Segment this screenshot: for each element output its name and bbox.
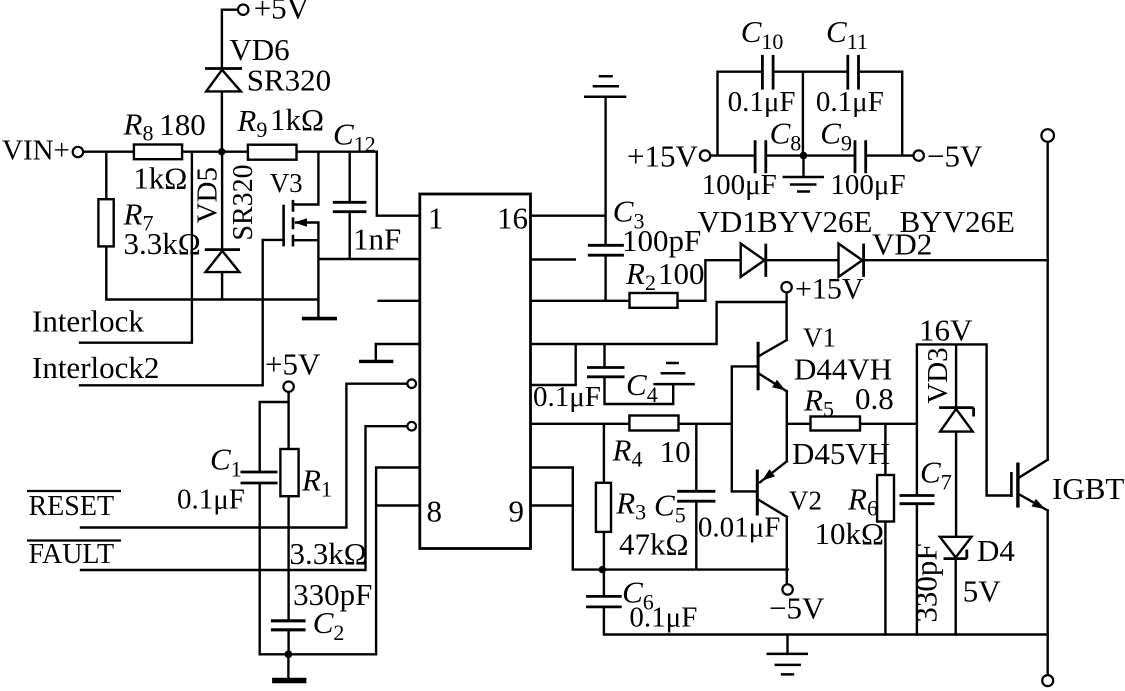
svg-text:Interlock: Interlock: [32, 304, 144, 339]
svg-text:C5: C5: [654, 488, 686, 528]
svg-text:R2: R2: [625, 256, 656, 295]
svg-text:C7: C7: [920, 455, 952, 495]
svg-text:D45VH: D45VH: [792, 436, 890, 471]
svg-text:1: 1: [428, 201, 444, 236]
svg-text:VIN+: VIN+: [2, 135, 70, 167]
svg-text:1kΩ: 1kΩ: [133, 161, 187, 196]
svg-text:+15V: +15V: [627, 139, 698, 174]
svg-text:C11: C11: [826, 14, 868, 54]
svg-text:180: 180: [159, 107, 206, 142]
svg-text:C10: C10: [741, 14, 784, 54]
svg-text:SR320: SR320: [228, 164, 259, 240]
svg-text:0.8: 0.8: [855, 381, 894, 416]
svg-text:Interlock2: Interlock2: [32, 350, 159, 385]
svg-text:R4: R4: [612, 433, 643, 472]
svg-text:8: 8: [427, 494, 443, 529]
svg-text:0.01μF: 0.01μF: [698, 512, 780, 544]
svg-text:100μF: 100μF: [702, 169, 777, 201]
svg-text:R6: R6: [847, 482, 878, 521]
svg-text:100: 100: [658, 256, 705, 291]
svg-text:C1: C1: [210, 442, 242, 482]
svg-text:V2: V2: [789, 486, 822, 516]
svg-text:0.1μF: 0.1μF: [177, 484, 245, 516]
svg-text:100μF: 100μF: [830, 169, 905, 201]
svg-text:BYV26E: BYV26E: [757, 204, 872, 239]
svg-text:V1: V1: [803, 323, 836, 353]
svg-text:16: 16: [497, 201, 528, 236]
svg-text:+15V: +15V: [795, 273, 864, 306]
svg-text:C9: C9: [820, 116, 852, 156]
svg-text:+5V: +5V: [265, 347, 321, 382]
svg-text:1nF: 1nF: [353, 222, 401, 257]
svg-text:3.3kΩ: 3.3kΩ: [124, 226, 201, 261]
svg-text:330pF: 330pF: [909, 543, 944, 622]
svg-text:R9: R9: [236, 103, 267, 142]
svg-text:C4: C4: [626, 367, 658, 407]
svg-text:D4: D4: [977, 533, 1015, 568]
svg-text:−5V: −5V: [769, 591, 825, 626]
svg-text:16V: 16V: [919, 313, 973, 348]
svg-text:IGBT: IGBT: [1052, 471, 1124, 506]
svg-text:VD2: VD2: [872, 227, 932, 262]
svg-text:FAULT: FAULT: [29, 539, 115, 570]
svg-text:9: 9: [509, 494, 525, 529]
svg-text:R8: R8: [123, 107, 154, 146]
svg-text:3.3kΩ: 3.3kΩ: [290, 536, 367, 571]
svg-text:+5V: +5V: [254, 0, 310, 26]
svg-text:SR320: SR320: [247, 62, 331, 97]
svg-text:R3: R3: [615, 486, 646, 525]
svg-text:C12: C12: [333, 117, 376, 157]
svg-text:100pF: 100pF: [622, 223, 701, 258]
svg-text:C8: C8: [770, 116, 802, 156]
svg-text:VD5: VD5: [191, 167, 223, 223]
svg-text:RESET: RESET: [29, 491, 115, 522]
svg-text:0.1μF: 0.1μF: [533, 381, 601, 413]
svg-text:VD3: VD3: [922, 347, 954, 403]
svg-text:47kΩ: 47kΩ: [619, 527, 689, 562]
svg-text:10: 10: [660, 434, 691, 469]
svg-text:0.1μF: 0.1μF: [816, 86, 884, 118]
svg-text:10kΩ: 10kΩ: [815, 516, 885, 551]
svg-text:VD1: VD1: [698, 204, 758, 239]
svg-text:1kΩ: 1kΩ: [270, 102, 324, 137]
svg-text:R1: R1: [301, 463, 332, 502]
svg-text:5V: 5V: [963, 574, 1002, 609]
svg-text:−5V: −5V: [927, 139, 983, 174]
svg-text:V3: V3: [270, 168, 303, 198]
svg-text:0.1μF: 0.1μF: [629, 602, 697, 634]
svg-text:R5: R5: [803, 383, 834, 422]
svg-text:0.1μF: 0.1μF: [728, 86, 796, 118]
